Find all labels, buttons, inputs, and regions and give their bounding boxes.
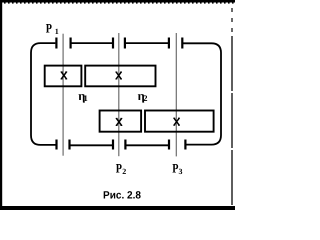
casing top-right rounded corner and right wall [182, 43, 221, 144]
svg-text:P: P [46, 20, 52, 35]
bearing tick left of shaft I, bottom [55, 140, 57, 150]
x mark on shaft I in box A [61, 72, 68, 79]
bearing tick right of shaft III, bottom [184, 140, 186, 150]
casing top-left rounded corner and left wall [31, 43, 56, 145]
casing top wall segment between shaft I and shaft II [71, 42, 114, 44]
gear box D on shaft III (lower row) [145, 111, 214, 132]
bearing tick left of shaft II, top [112, 38, 114, 49]
svg-text:1: 1 [84, 93, 88, 103]
label P2 at bottom of shaft II [116, 160, 127, 176]
casing top wall segment between shaft II and shaft III [125, 42, 169, 44]
bearing tick left of shaft III, bottom [168, 140, 170, 150]
bearing tick right of shaft II, bottom [124, 140, 126, 150]
label P3 at bottom of shaft III [172, 161, 182, 177]
bearing tick right of shaft III, top [181, 38, 183, 49]
svg-text:Рис. 2.8: Рис. 2.8 [103, 190, 141, 202]
frame left bar [0, 0, 2, 210]
x mark on shaft II in box B [115, 72, 122, 79]
svg-text:P: P [172, 161, 178, 176]
x mark on shaft III in box D [173, 118, 180, 125]
bearing tick right of shaft II, top [124, 38, 126, 49]
label P1 at top of shaft I [46, 20, 59, 36]
gear box A on shaft I (upper row) [45, 66, 82, 87]
gear box B on shaft II (upper row) [85, 66, 155, 87]
svg-text:P: P [116, 160, 122, 175]
frame top bar [0, 0, 235, 3]
label eta2 (efficiency of second stage) [138, 89, 148, 103]
label eta1 (efficiency of first stage) [78, 89, 88, 103]
bearing tick right of shaft I, bottom [68, 140, 70, 150]
shaft II (vertical grey line) [118, 33, 120, 156]
casing bottom wall segment between shaft I and shaft II [70, 144, 114, 146]
svg-text:3: 3 [179, 167, 183, 176]
svg-text:2: 2 [143, 93, 147, 103]
shaft I (input, vertical grey line) [62, 34, 64, 156]
svg-text:2: 2 [122, 167, 126, 176]
gear box C on shaft II (lower row) [100, 111, 142, 132]
bearing tick left of shaft III, top [168, 38, 170, 49]
frame right dashed line [231, 8, 233, 36]
frame bottom bar [0, 206, 235, 210]
bearing tick left of shaft II, bottom [112, 140, 114, 150]
bearing tick right of shaft I, top [69, 38, 71, 49]
bearing tick left of shaft I, top [55, 38, 57, 49]
shaft III (vertical grey line) [175, 33, 177, 156]
svg-text:1: 1 [55, 27, 59, 36]
x mark on shaft II in box C [116, 118, 123, 125]
casing bottom wall segment between shaft II and shaft III [125, 144, 169, 146]
